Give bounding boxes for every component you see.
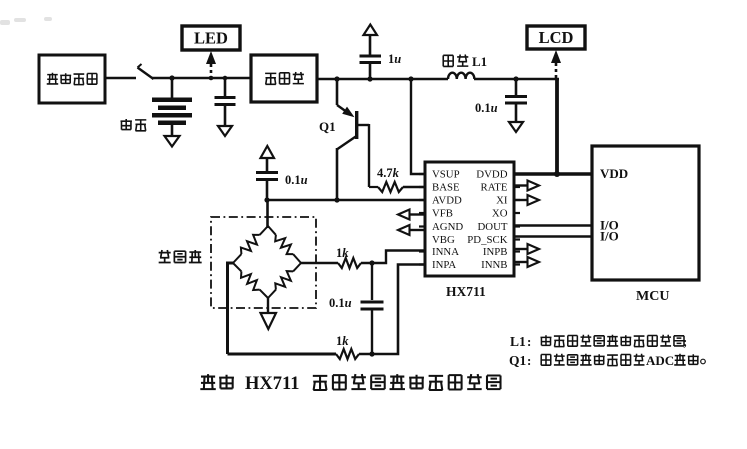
svg-text:LED: LED bbox=[194, 29, 228, 48]
label 磁珠 L1 bbox=[443, 54, 487, 69]
arrow INNB bbox=[514, 257, 539, 267]
svg-text::: : bbox=[527, 353, 531, 368]
arrow VFB bbox=[398, 210, 425, 220]
wire regulator to L1 bbox=[317, 78, 448, 81]
svg-text:1k: 1k bbox=[336, 334, 349, 348]
wire DOUT to I/O bbox=[514, 224, 592, 227]
ground arrow under C2 bbox=[218, 126, 232, 136]
svg-text:L1: L1 bbox=[510, 334, 526, 349]
wire AVDD to bridge top bbox=[266, 200, 269, 228]
wire battery drop bbox=[171, 77, 174, 99]
svg-text:AVDD: AVDD bbox=[432, 195, 462, 207]
svg-text:PD_SCK: PD_SCK bbox=[467, 234, 507, 246]
svg-text::: : bbox=[527, 334, 531, 349]
svg-text:I/O: I/O bbox=[600, 229, 619, 244]
IC U1 HX711 body bbox=[419, 162, 520, 276]
block MCU bbox=[592, 146, 699, 280]
wire charger to switch bbox=[105, 77, 136, 80]
ground arrow under battery bbox=[165, 136, 180, 147]
label MCU bbox=[636, 289, 669, 304]
node 0.1u bridge top junction bbox=[369, 260, 374, 265]
label Q1 bbox=[319, 119, 336, 134]
node LED arrow junction bbox=[209, 76, 214, 81]
arrow AGND bbox=[398, 225, 425, 235]
label 1k top bbox=[336, 246, 349, 260]
block 稳压管 (regulator) bbox=[251, 55, 317, 102]
svg-text:4.7k: 4.7k bbox=[377, 166, 400, 180]
resistor 1k top bbox=[338, 258, 361, 268]
capacitor 0.1u bridge bbox=[361, 263, 384, 354]
label 传感器 bbox=[159, 250, 202, 262]
svg-text:VSUP: VSUP bbox=[432, 169, 460, 181]
capacitor 1u bbox=[360, 35, 382, 79]
svg-text:HX711: HX711 bbox=[245, 374, 299, 394]
dashed arrow to LED bbox=[206, 51, 216, 78]
svg-text:DVDD: DVDD bbox=[476, 169, 507, 181]
node C2 junction bbox=[223, 76, 228, 81]
resistor 1k bottom bbox=[336, 349, 359, 359]
arrow under bridge bbox=[261, 313, 277, 329]
svg-text:0.1u: 0.1u bbox=[285, 173, 308, 187]
svg-text:BASE: BASE bbox=[432, 182, 460, 194]
label 电池 bbox=[121, 119, 147, 131]
node Q1 emitter junction bbox=[334, 76, 339, 81]
MCU pin VDD bbox=[600, 166, 628, 181]
node 0.1u bridge bottom junction bbox=[369, 351, 374, 356]
svg-text:0.1u: 0.1u bbox=[475, 101, 498, 115]
arrow XI bbox=[514, 195, 539, 205]
svg-text:Q1: Q1 bbox=[319, 119, 336, 134]
wire AVDD rail bbox=[267, 199, 425, 202]
svg-text:0.1u: 0.1u bbox=[329, 296, 352, 310]
label 1k bottom bbox=[336, 334, 349, 348]
svg-text:VBG: VBG bbox=[432, 234, 455, 246]
svg-text:VDD: VDD bbox=[600, 166, 628, 181]
node 0.1u top junction bbox=[513, 76, 518, 81]
svg-text:LCD: LCD bbox=[539, 28, 574, 47]
capacitor 0.1u top bbox=[505, 79, 527, 122]
block 充电电路 (charger) bbox=[39, 55, 105, 103]
sensor dashed box bbox=[211, 217, 316, 308]
block LED bbox=[182, 26, 240, 50]
wire bridge bottom drop bbox=[267, 298, 269, 313]
label 0.1u top bbox=[475, 101, 498, 115]
bridge resistor bottom-left bbox=[233, 263, 268, 298]
svg-text:VFB: VFB bbox=[432, 208, 453, 220]
wire L1 to LCD node bbox=[474, 78, 559, 81]
svg-text:DOUT: DOUT bbox=[478, 221, 508, 233]
label HX711 bbox=[446, 284, 486, 299]
transistor Q1 bbox=[337, 78, 369, 200]
svg-text:INNB: INNB bbox=[481, 259, 507, 271]
svg-text:Q1: Q1 bbox=[509, 353, 527, 368]
node AVDD cap junction bbox=[264, 197, 269, 202]
label 4.7k bbox=[377, 166, 400, 180]
wire bridge left leg bbox=[228, 263, 234, 354]
bridge resistor bottom-right bbox=[268, 263, 301, 298]
label 0.1u bridge bbox=[329, 296, 352, 310]
wire LCD node to VDD rail bbox=[555, 78, 559, 175]
svg-text:HX711: HX711 bbox=[446, 284, 486, 299]
resistor 4.7k bbox=[369, 182, 425, 192]
wire 1k to INNA bbox=[361, 251, 425, 264]
wire base to resistor bbox=[368, 124, 370, 187]
wire PD_SCK to I/O bbox=[514, 235, 592, 238]
svg-text:INPB: INPB bbox=[483, 246, 508, 258]
svg-text:;: ; bbox=[683, 335, 687, 349]
wire battery to ground bbox=[171, 125, 174, 136]
HX711 pin names bbox=[432, 169, 508, 272]
node DVDD junction bbox=[554, 171, 560, 177]
svg-text:XI: XI bbox=[496, 195, 508, 207]
MCU pin I/O 1 bbox=[600, 218, 619, 233]
svg-text:1u: 1u bbox=[388, 52, 401, 66]
bridge resistor top-left bbox=[233, 226, 268, 263]
note L1 bbox=[510, 334, 687, 349]
ground arrow under 0.1u top bbox=[509, 122, 523, 132]
svg-text:XO: XO bbox=[492, 208, 508, 220]
wire bridge right to 1k bbox=[301, 262, 338, 264]
block LCD bbox=[527, 26, 585, 49]
inductor L1 (磁珠) bbox=[448, 73, 474, 79]
faint scan marks bbox=[0, 17, 52, 25]
node battery junction bbox=[169, 75, 174, 80]
wire DVDD to MCU VDD bbox=[514, 172, 592, 175]
wire VSUP bbox=[411, 79, 425, 174]
svg-text:ADC: ADC bbox=[646, 353, 674, 368]
power arrow above 0.1u left bbox=[261, 146, 275, 158]
label 0.1u left bbox=[285, 173, 308, 187]
caption 图四 HX711 计价秤应用参考电路图 bbox=[200, 374, 500, 394]
svg-text:AGND: AGND bbox=[432, 221, 463, 233]
svg-text:1k: 1k bbox=[336, 246, 349, 260]
svg-text:MCU: MCU bbox=[636, 289, 669, 304]
node VSUP junction bbox=[408, 76, 413, 81]
node 1u cap junction bbox=[367, 76, 372, 81]
arrow INPB bbox=[514, 244, 539, 254]
dashed arrow to LCD bbox=[551, 50, 561, 78]
capacitor C2 bbox=[215, 78, 236, 126]
wire switch to regulator bbox=[152, 77, 251, 80]
capacitor 0.1u left bbox=[256, 158, 278, 200]
bridge resistor top-right bbox=[268, 226, 301, 263]
wire bottom rail right bbox=[359, 265, 425, 355]
label 1u bbox=[388, 52, 401, 66]
wire bottom rail left bbox=[228, 353, 337, 356]
svg-text:INNA: INNA bbox=[432, 246, 459, 258]
power arrow above 1u bbox=[364, 25, 378, 36]
note Q1 bbox=[509, 353, 705, 368]
svg-text:L1: L1 bbox=[472, 54, 487, 69]
switch S1 bbox=[138, 64, 154, 79]
arrow RATE bbox=[514, 181, 539, 191]
svg-text:INPA: INPA bbox=[432, 259, 456, 271]
MCU pin I/O 2 bbox=[600, 229, 619, 244]
svg-text:RATE: RATE bbox=[481, 182, 508, 194]
battery B1 bbox=[152, 98, 192, 126]
node AVDD collector junction bbox=[334, 197, 339, 202]
